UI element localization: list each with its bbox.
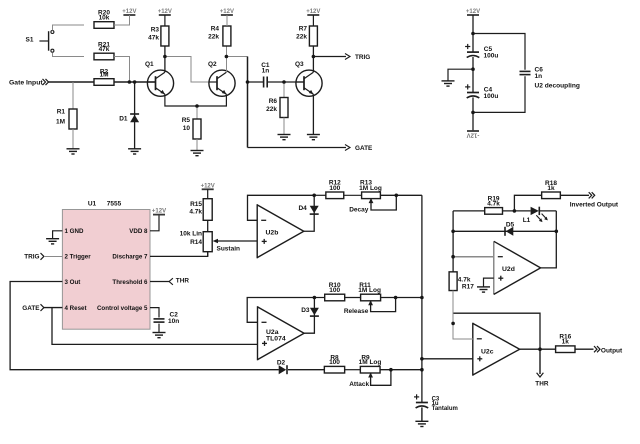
svg-text:2 Trigger: 2 Trigger [65, 254, 92, 261]
svg-text:GATE: GATE [22, 305, 40, 312]
svg-text:R5: R5 [182, 117, 191, 124]
svg-text:+12V: +12V [201, 183, 215, 189]
svg-text:+12V: +12V [220, 9, 234, 15]
svg-text:+12V: +12V [158, 9, 172, 15]
svg-text:10: 10 [183, 125, 191, 132]
svg-text:100: 100 [329, 359, 340, 366]
svg-text:TL074: TL074 [266, 335, 286, 342]
svg-text:THR: THR [535, 380, 549, 387]
svg-text:VDD 8: VDD 8 [129, 228, 148, 235]
svg-text:Q2: Q2 [208, 61, 217, 68]
svg-text:R1: R1 [57, 109, 66, 116]
svg-text:47k: 47k [148, 35, 159, 42]
svg-text:R14: R14 [190, 239, 202, 246]
svg-text:TRIG: TRIG [24, 254, 39, 261]
svg-text:22k: 22k [266, 106, 277, 113]
svg-text:100: 100 [329, 185, 340, 192]
svg-text:Output: Output [601, 347, 623, 354]
svg-text:1 GND: 1 GND [65, 228, 84, 235]
svg-text:Decay: Decay [349, 206, 369, 213]
svg-text:U2d: U2d [502, 266, 515, 273]
svg-text:7555: 7555 [107, 201, 122, 208]
svg-text:1M: 1M [99, 72, 108, 79]
svg-text:U2b: U2b [266, 230, 279, 237]
svg-text:Q3: Q3 [295, 61, 304, 68]
svg-text:U2 decoupling: U2 decoupling [535, 83, 580, 90]
svg-text:R15: R15 [190, 201, 202, 208]
svg-text:1k: 1k [547, 185, 555, 192]
svg-text:Release: Release [344, 308, 369, 315]
svg-text:1n: 1n [535, 73, 543, 80]
svg-text:Tantalum: Tantalum [432, 406, 458, 412]
svg-text:1M Log: 1M Log [359, 185, 382, 192]
svg-text:1M Log: 1M Log [358, 287, 381, 294]
svg-text:D3: D3 [301, 307, 310, 314]
svg-text:100u: 100u [484, 53, 499, 60]
svg-text:TRIG: TRIG [355, 54, 370, 61]
svg-text:1k: 1k [562, 339, 570, 346]
svg-text:R7: R7 [299, 26, 308, 33]
svg-text:R6: R6 [269, 98, 278, 105]
svg-text:3 Out: 3 Out [65, 279, 81, 286]
svg-text:4.7k: 4.7k [487, 200, 500, 207]
svg-text:Discharge 7: Discharge 7 [112, 254, 148, 261]
svg-text:+12V: +12V [306, 9, 320, 15]
svg-text:-12V: -12V [467, 131, 480, 137]
svg-text:L1: L1 [523, 217, 531, 224]
svg-text:4 Reset: 4 Reset [65, 305, 87, 312]
svg-text:R17: R17 [462, 284, 474, 291]
svg-text:100u: 100u [484, 93, 499, 100]
svg-text:THR: THR [176, 278, 190, 285]
svg-text:S1: S1 [26, 37, 34, 44]
svg-text:D4: D4 [298, 205, 307, 212]
svg-text:1M Log: 1M Log [359, 359, 382, 366]
svg-text:D2: D2 [277, 359, 286, 366]
svg-text:10k: 10k [99, 15, 110, 22]
svg-text:4.7k: 4.7k [458, 277, 471, 284]
svg-text:22k: 22k [296, 34, 307, 41]
svg-text:10k Lin: 10k Lin [180, 231, 202, 238]
svg-text:Gate Input: Gate Input [9, 80, 43, 87]
svg-text:Q1: Q1 [145, 61, 154, 68]
svg-text:GATE: GATE [355, 145, 373, 152]
svg-text:D5: D5 [506, 221, 515, 228]
svg-text:R3: R3 [151, 27, 160, 34]
svg-text:Attack: Attack [349, 381, 369, 388]
svg-text:1n: 1n [262, 67, 270, 74]
svg-text:+12V: +12V [122, 9, 136, 15]
svg-text:Inverted Output: Inverted Output [570, 202, 619, 209]
svg-text:+12V: +12V [152, 208, 166, 214]
svg-text:47k: 47k [99, 46, 110, 53]
svg-text:U1: U1 [88, 201, 97, 208]
svg-text:100: 100 [329, 287, 340, 294]
svg-text:D1: D1 [119, 116, 128, 123]
svg-text:22k: 22k [208, 34, 219, 41]
svg-text:Threshold 6: Threshold 6 [112, 279, 148, 286]
svg-text:1M: 1M [56, 119, 65, 126]
svg-text:Control voltage 5: Control voltage 5 [97, 305, 148, 312]
svg-text:U2c: U2c [481, 349, 494, 356]
svg-text:10n: 10n [168, 318, 179, 325]
svg-text:4.7k: 4.7k [189, 209, 202, 216]
svg-text:Sustain: Sustain [217, 245, 241, 252]
svg-text:+12V: +12V [466, 9, 480, 15]
svg-text:R4: R4 [211, 26, 220, 33]
